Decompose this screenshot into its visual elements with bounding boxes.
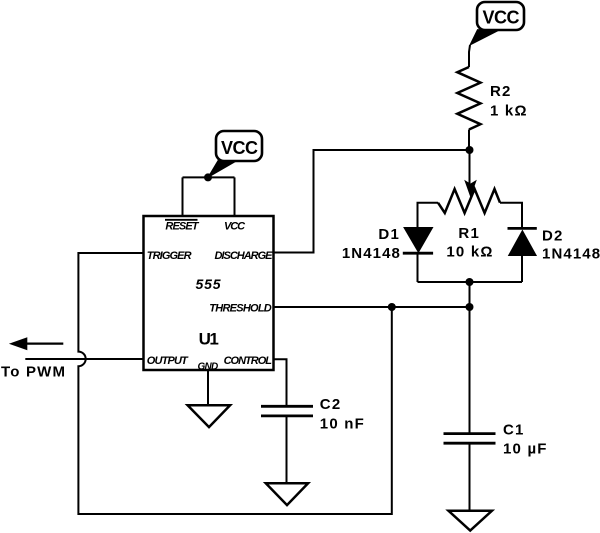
wire C2 to ground bbox=[286, 416, 288, 483]
wire C1 to ground bbox=[469, 443, 471, 511]
svg-text:C1: C1 bbox=[503, 422, 525, 439]
node dot vcc flag bbox=[204, 173, 212, 181]
op-amp 555 box U1 bbox=[144, 216, 274, 370]
wire R2 to node bbox=[468, 130, 470, 151]
svg-text:RESET: RESET bbox=[165, 221, 199, 233]
svg-text:DISCHARGE: DISCHARGE bbox=[214, 250, 273, 262]
svg-text:D2: D2 bbox=[542, 228, 564, 245]
svg-text:10 µF: 10 µF bbox=[503, 441, 548, 458]
output arrow To PWM bbox=[1, 337, 66, 380]
svg-text:To PWM: To PWM bbox=[1, 364, 66, 381]
svg-text:555: 555 bbox=[196, 276, 222, 292]
power flag VCC (above 555) bbox=[208, 131, 262, 177]
svg-text:R2: R2 bbox=[490, 83, 512, 100]
wire pot rail to threshold rail bbox=[469, 282, 471, 307]
wire node to discharge bbox=[274, 150, 470, 253]
wire control to C2 bbox=[274, 359, 287, 406]
diode D2 bbox=[508, 228, 600, 283]
wire vcc stub bbox=[234, 177, 236, 216]
ground (below C1) bbox=[449, 511, 492, 531]
potentiometer R1 bbox=[418, 189, 523, 261]
svg-text:OUTPUT: OUTPUT bbox=[147, 355, 189, 367]
svg-text:VCC: VCC bbox=[483, 8, 520, 28]
wire output bbox=[25, 358, 143, 360]
svg-text:VCC: VCC bbox=[221, 138, 258, 158]
svg-text:THRESHOLD: THRESHOLD bbox=[209, 303, 272, 315]
resistor R2 bbox=[457, 67, 480, 130]
wire gnd pin bbox=[207, 370, 209, 405]
wire VCC to R2 bbox=[469, 45, 470, 67]
ground (below C2) bbox=[266, 483, 308, 505]
svg-text:10 nF: 10 nF bbox=[320, 415, 365, 432]
potentiometer wiper arrow bbox=[464, 150, 477, 198]
wire trigger to bottom rail (with hop over output wire) bbox=[78, 253, 391, 514]
svg-text:CONTROL: CONTROL bbox=[224, 355, 273, 367]
svg-text:C2: C2 bbox=[320, 396, 342, 413]
svg-text:D1: D1 bbox=[378, 226, 400, 243]
ground (555 GND) bbox=[188, 405, 231, 427]
svg-text:U1: U1 bbox=[199, 329, 219, 348]
node junction dot at R2 bottom bbox=[466, 146, 474, 154]
svg-text:1 kΩ: 1 kΩ bbox=[490, 103, 528, 120]
svg-text:1N4148: 1N4148 bbox=[542, 246, 600, 263]
capacitor C2 bbox=[261, 396, 365, 432]
svg-text:1N4148: 1N4148 bbox=[342, 245, 401, 262]
pin label RESET with overline bbox=[165, 220, 200, 233]
svg-text:10 kΩ: 10 kΩ bbox=[446, 244, 493, 261]
wire to C1 bbox=[469, 307, 471, 433]
svg-text:TRIGGER: TRIGGER bbox=[147, 250, 192, 262]
svg-text:R1: R1 bbox=[458, 225, 480, 242]
capacitor C1 bbox=[444, 422, 548, 458]
node dot pot bottom bbox=[466, 278, 474, 286]
wire threshold bbox=[274, 306, 470, 308]
power flag VCC (top right) bbox=[470, 2, 524, 45]
wire top rail bbox=[183, 176, 235, 178]
diode D1 bbox=[342, 226, 433, 282]
node dot threshold/C1 bbox=[466, 303, 474, 311]
svg-text:VCC: VCC bbox=[224, 221, 246, 233]
wire reset stub bbox=[182, 177, 184, 216]
node dot threshold/trigger bbox=[388, 303, 396, 311]
wire pot bottom rail bbox=[418, 281, 523, 283]
